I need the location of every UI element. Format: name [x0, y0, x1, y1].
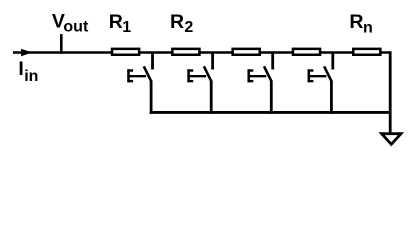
S1 actuator E symbol — [127, 69, 130, 82]
resistor R3 (unlabeled) — [233, 49, 260, 55]
wire: S1 bottom contact to bus — [150, 80, 153, 114]
wire: bottom bus — [150, 111, 392, 114]
current arrow Iin — [21, 49, 32, 57]
S4 blade — [324, 66, 331, 81]
svg-text:out: out — [63, 18, 89, 35]
wire: main top rail — [13, 51, 390, 54]
S2 actuator E symbol — [187, 69, 190, 82]
wire: right vertical down to ground — [389, 51, 392, 133]
svg-text:I: I — [18, 58, 23, 80]
wire: S2 top contact drop — [211, 53, 214, 70]
svg-text:1: 1 — [122, 19, 131, 36]
wire: S1 top contact drop — [151, 53, 154, 70]
wire: S2 bottom contact to bus — [210, 80, 213, 114]
resistor R2 — [172, 49, 199, 55]
S4 actuator E symbol — [308, 69, 311, 82]
S1 blade — [144, 66, 151, 81]
wire: S3 bottom contact to bus — [270, 80, 273, 114]
resistor R4 (unlabeled) — [293, 49, 320, 55]
S3 blade — [264, 66, 271, 81]
svg-text:in: in — [24, 68, 38, 85]
wire: S4 top contact drop — [331, 53, 334, 70]
svg-text:2: 2 — [184, 19, 193, 36]
svg-text:R: R — [349, 11, 363, 33]
switch S2 — [187, 53, 212, 114]
node Vout tick — [60, 34, 63, 54]
resistor Rn — [353, 49, 380, 55]
wire: S4 bottom contact to bus — [330, 80, 333, 114]
wire: S3 top contact drop — [271, 53, 274, 70]
svg-text:R: R — [109, 11, 123, 33]
switch S4 — [308, 53, 333, 114]
svg-text:R: R — [170, 11, 184, 33]
switch S1 — [127, 53, 152, 114]
resistor R1 — [112, 49, 139, 55]
svg-text:n: n — [363, 20, 373, 37]
switch S3 — [248, 53, 273, 114]
ground — [382, 134, 401, 145]
S2 blade — [204, 66, 211, 81]
S3 actuator E symbol — [247, 69, 250, 82]
